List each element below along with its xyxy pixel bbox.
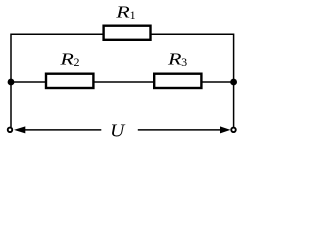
- svg-text:R: R: [115, 2, 131, 21]
- svg-text:1: 1: [130, 8, 136, 22]
- svg-text:3: 3: [181, 55, 187, 69]
- svg-text:R: R: [59, 49, 75, 68]
- svg-text:R: R: [167, 49, 183, 68]
- svg-text:2: 2: [74, 55, 80, 69]
- svg-text:U: U: [110, 120, 125, 140]
